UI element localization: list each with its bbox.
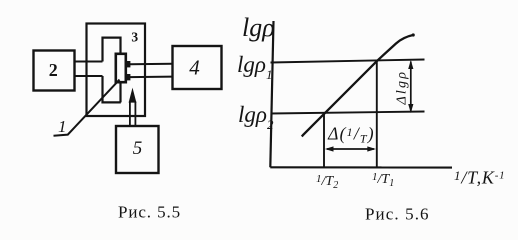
level line lg rho 2 [271,112,425,114]
x-axis [270,166,452,168]
leader line from label 1 to sample [54,80,120,136]
contact nub upper [125,61,131,67]
wire pair sample to box4 [130,64,173,77]
arrow head [129,88,137,103]
svg-text:Рис. 5.5: Рис. 5.5 [118,203,181,222]
box 3 (chamber) [87,24,146,117]
box 2 [34,51,75,91]
svg-text:lgρ: lgρ [242,13,275,42]
level line lg rho 1 [271,60,425,63]
wire pair box2 to tube [75,62,103,77]
vertical line at 1/T1 [376,61,378,168]
svg-text:4: 4 [189,56,200,80]
vertical double arrow delta lg rho [410,62,412,112]
vertical line at 1/T2 [323,113,325,167]
curve lg rho vs 1/T [302,35,414,137]
sample 1 (rectangle) [116,54,126,82]
contact nub lower [125,74,131,80]
svg-text:Δlgρ: Δlgρ [395,70,410,106]
svg-text:2: 2 [49,60,58,80]
box 5 [116,126,159,173]
svg-text:3: 3 [131,30,138,45]
box 4 [173,46,222,89]
svg-text:5: 5 [133,138,143,159]
tube (inner cross outline in box 3) [103,38,121,103]
horizontal double arrow delta(1/T) [327,148,374,150]
y-axis [270,21,273,167]
arrow from box 5 into box 3 (shaft) [130,102,136,127]
svg-text:Рис. 5.6: Рис. 5.6 [365,205,430,224]
svg-text:1: 1 [58,117,67,136]
